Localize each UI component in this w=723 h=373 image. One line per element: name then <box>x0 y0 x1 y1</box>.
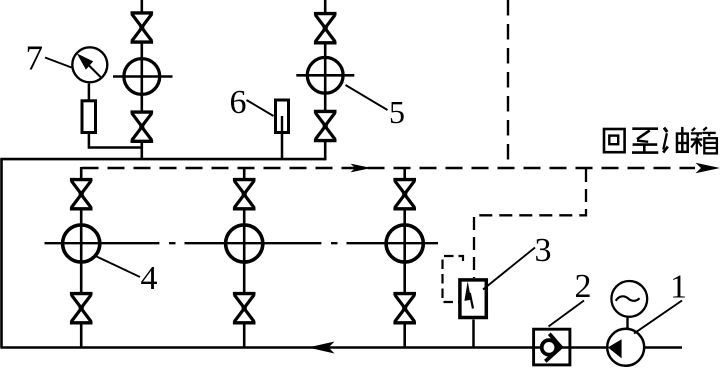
wire: bottom branch 2 vertical <box>243 167 246 348</box>
wire: bottom branch 3 vertical <box>403 167 406 348</box>
check valve 2 ball and seat <box>542 334 561 362</box>
wire: dashed pilot line to relief valve <box>474 169 586 278</box>
wire: elbow from damper to branch A <box>89 134 142 148</box>
wire: motor to pump connector <box>626 316 628 330</box>
label 6 <box>230 84 247 121</box>
leader line for label 4 <box>96 256 141 277</box>
valve: bottom branch 1 upper <box>70 180 93 209</box>
svg-text:6: 6 <box>230 84 247 121</box>
wire: bottom branch 1 vertical <box>80 167 83 348</box>
valve: top branch B lower <box>314 111 337 140</box>
char hui: outer and inner box <box>604 129 625 152</box>
svg-text:3: 3 <box>535 232 552 269</box>
valve: top branch A lower <box>131 112 154 141</box>
valve: bottom branch 3 lower <box>393 294 416 323</box>
arrow at return line end <box>696 163 721 173</box>
leader line for label 6 <box>247 100 274 116</box>
label 2 <box>575 268 592 305</box>
relief valve 3 body <box>460 280 486 318</box>
wire: relief valve to bottom line <box>472 320 475 348</box>
char zhi <box>632 127 658 130</box>
arrow on return line (middle) <box>351 164 372 173</box>
label 1 <box>670 269 687 306</box>
leader line for label 5 <box>346 85 388 110</box>
wire: top branch B vertical <box>324 0 327 160</box>
wire: dashed drain box at relief valve <box>443 256 464 302</box>
svg-text:2: 2 <box>575 268 592 305</box>
flow meter 5 on branch B <box>296 57 354 93</box>
leader line for label 2 <box>549 301 585 327</box>
check valve 2 box <box>534 329 570 365</box>
wire: bottom suction line <box>0 346 682 349</box>
char you <box>664 128 667 132</box>
label 3 <box>535 232 552 269</box>
pump 1 circle <box>607 329 644 366</box>
wire: gauge to damper <box>88 84 91 100</box>
wire: dash-dot centre line through bottom pumps <box>45 242 439 244</box>
leader line for label 1 <box>634 301 682 334</box>
wire: top supply line <box>0 158 325 161</box>
label 5 <box>389 94 405 130</box>
pump circle 4 (branch 1) <box>63 225 100 262</box>
valve: top branch A upper <box>131 13 154 42</box>
svg-text:5: 5 <box>389 94 405 130</box>
damper rectangle under gauge 7 <box>82 101 96 133</box>
electric motor circle <box>611 281 647 317</box>
svg-text:4: 4 <box>141 260 158 297</box>
wire: left vertical border of loop <box>0 159 3 348</box>
wire: vertical dashed line from top <box>507 0 509 168</box>
text: 回至油箱 (hand drawn strokes) <box>604 127 717 154</box>
pump circle (branch 2) <box>226 225 263 262</box>
leader line for label 7 <box>45 58 72 68</box>
valve: bottom branch 2 upper <box>233 180 256 209</box>
needle head of gauge 7 <box>77 53 93 69</box>
wire: top branch A vertical <box>141 0 144 160</box>
pressure gauge 7 <box>72 47 107 82</box>
arrow on bottom line (flow to left) <box>308 342 335 354</box>
svg-text:7: 7 <box>26 39 44 78</box>
valve: bottom branch 1 lower <box>70 294 93 323</box>
flow meter on branch A <box>113 59 173 95</box>
wire: dashed return line <box>82 167 696 169</box>
valve: top branch B upper <box>314 14 337 43</box>
label 7 <box>26 39 44 78</box>
char xiang <box>691 127 717 154</box>
wire: sensor 6 down to supply line <box>281 134 284 160</box>
valve: bottom branch 3 upper <box>393 180 416 209</box>
svg-text:1: 1 <box>670 269 687 306</box>
leader line for label 3 <box>483 248 535 290</box>
pump circle (branch 3) <box>386 225 423 262</box>
valve: bottom branch 2 lower <box>233 294 256 323</box>
label 4 <box>141 260 158 297</box>
sensor rectangle 6 <box>276 100 289 134</box>
